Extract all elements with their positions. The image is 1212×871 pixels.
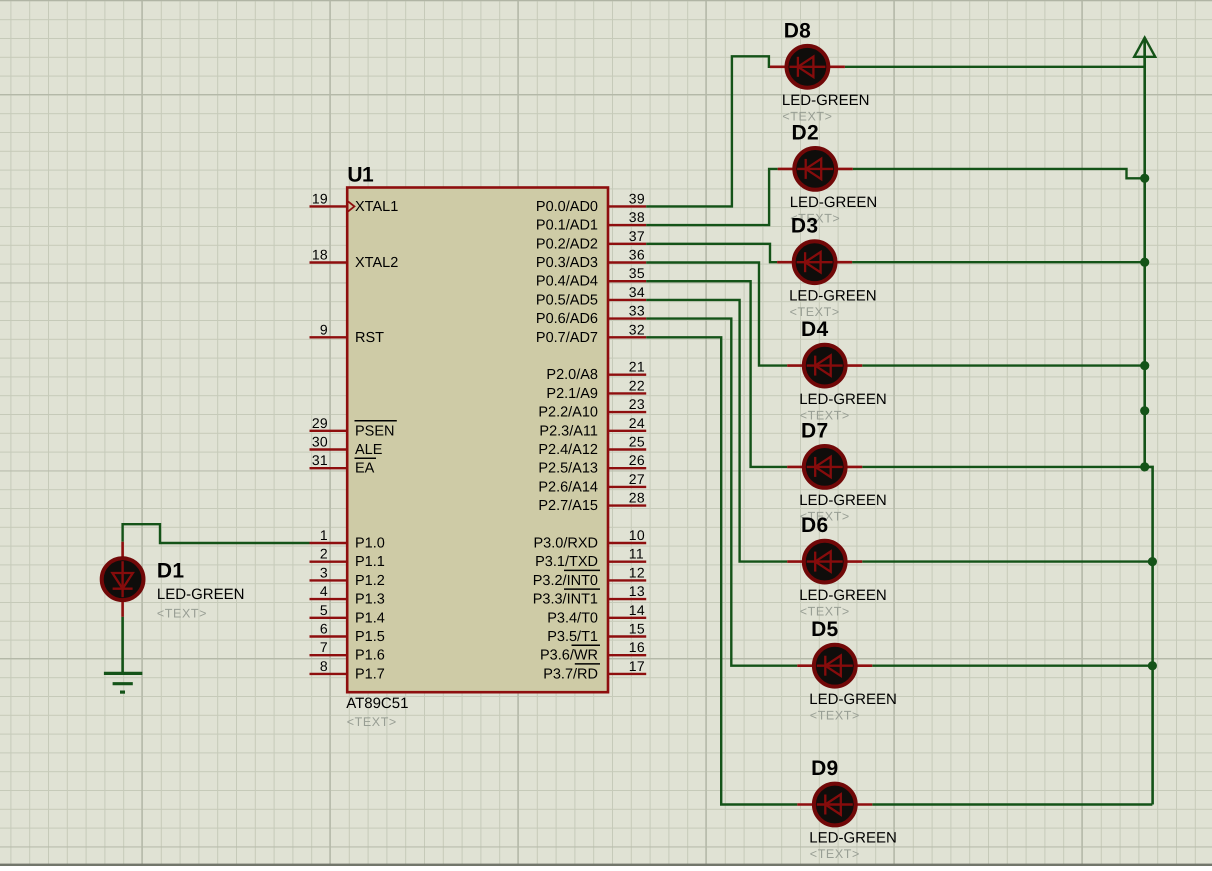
svg-text:P2.6/A14: P2.6/A14 [538,479,598,495]
svg-text:3: 3 [320,564,328,580]
junction dot 6 on power rail [1148,557,1157,566]
wire D9 anode to power rail [872,803,1152,805]
svg-text:D7: D7 [801,419,828,442]
svg-text:D4: D4 [801,318,828,341]
svg-text:LED-GREEN: LED-GREEN [157,586,245,603]
D1 value label LED-GREEN [157,586,245,603]
svg-text:LED-GREEN: LED-GREEN [782,92,870,109]
svg-text:P3.5/T1: P3.5/T1 [547,629,598,645]
svg-text:P0.0/AD0: P0.0/AD0 [536,199,598,215]
D7 value label LED-GREEN [799,492,887,509]
D6 property text placeholder [800,604,850,618]
D4 designator label [801,318,828,341]
wire D2 anode to power rail (with jog) [853,169,1145,178]
svg-text:XTAL1: XTAL1 [355,199,398,215]
svg-text:P2.3/A11: P2.3/A11 [539,423,598,439]
svg-text:29: 29 [312,415,328,431]
bottom window edge [0,864,1212,866]
LED D6 (LED-GREEN) [787,541,862,583]
U1 value label AT89C51 [346,695,408,712]
svg-text:P3.3/INT1: P3.3/INT1 [533,592,598,608]
svg-text:P0.2/AD2: P0.2/AD2 [536,236,598,252]
pin 29 (PSEN) left stub [310,415,397,440]
power symbol VCC up-arrow [1134,38,1155,67]
wire pin37 P0.2/AD2 to D3 cathode [646,244,777,262]
D5 value label LED-GREEN [809,691,897,708]
svg-text:25: 25 [629,434,645,450]
junction dot 1 on power rail [1140,174,1149,183]
svg-text:EA: EA [355,461,375,477]
svg-text:P1.6: P1.6 [355,648,385,664]
pin 16 (P3.6/WR) right stub [540,639,646,664]
pin 4 (P1.3) left stub [310,583,385,608]
wire D8 anode to power rail [845,66,1145,68]
pin 39 (P0.0/AD0) right stub [536,190,646,215]
wire vertical power rail bus [1145,40,1153,805]
svg-text:D5: D5 [811,618,838,641]
svg-text:19: 19 [312,190,328,206]
D4 value label LED-GREEN [799,391,887,408]
D8 property text placeholder [782,110,832,124]
svg-text:23: 23 [629,396,645,412]
junction dot 2 on power rail [1140,258,1149,267]
svg-text:7: 7 [320,639,328,655]
svg-text:33: 33 [629,303,645,319]
pin 8 (P1.7) left stub [310,658,385,683]
LED D2 (LED-GREEN) [778,148,853,190]
svg-text:<TEXT>: <TEXT> [810,708,860,722]
svg-text:D9: D9 [811,757,838,780]
pin 13 (P3.3/INT1) right stub [533,583,646,608]
svg-text:35: 35 [629,265,645,281]
pin 37 (P0.2/AD2) right stub [536,228,646,253]
pin 26 (P2.5/A13) right stub [538,452,646,477]
svg-text:P3.1/TXD: P3.1/TXD [535,554,598,570]
D1 property text placeholder [157,606,207,620]
svg-text:P2.5/A13: P2.5/A13 [538,461,598,477]
pin 27 (P2.6/A14) right stub [538,471,646,496]
svg-text:8: 8 [320,658,328,674]
svg-text:32: 32 [629,321,645,337]
LED D4 (LED-GREEN) [787,345,862,387]
svg-text:P2.7/A15: P2.7/A15 [538,498,598,514]
wire pin34 P0.5/AD5 to D6 cathode [646,300,787,562]
svg-text:LED-GREEN: LED-GREEN [809,691,897,708]
svg-text:LED-GREEN: LED-GREEN [799,587,887,604]
pin 3 (P1.2) left stub [310,564,385,589]
svg-text:21: 21 [629,359,645,375]
D3 value label LED-GREEN [789,287,877,304]
LED D8 (LED-GREEN) [770,46,845,88]
svg-text:D8: D8 [784,19,811,42]
pin 31 (EA) left stub [310,452,377,477]
pin 30 (ALE) left stub [310,434,383,459]
svg-text:24: 24 [629,415,645,431]
svg-text:P0.4/AD4: P0.4/AD4 [536,274,598,290]
D6 value label LED-GREEN [799,587,887,604]
svg-text:ALE: ALE [355,442,383,458]
svg-text:5: 5 [320,602,328,618]
wire D6 anode to power rail [862,560,1152,562]
pin 7 (P1.6) left stub [310,639,385,664]
D2 designator label [792,121,819,144]
LED D7 (LED-GREEN) [787,446,862,488]
svg-text:D6: D6 [801,514,828,537]
pin 23 (P2.2/A10) right stub [538,396,646,421]
pin 33 (P0.6/AD6) right stub [536,303,646,328]
svg-text:P0.1/AD1: P0.1/AD1 [536,218,598,234]
svg-text:D2: D2 [792,121,819,144]
pin 32 (P0.7/AD7) right stub [536,321,646,346]
LED D9 (LED-GREEN) [797,784,872,826]
D2 value label LED-GREEN [790,194,878,211]
wire D1 anode to U1 pin1 P1.0 [123,524,310,543]
wire pin35 P0.4/AD4 to D7 cathode [646,281,787,467]
svg-text:9: 9 [320,321,328,337]
svg-text:16: 16 [629,639,645,655]
svg-text:31: 31 [312,452,328,468]
svg-text:36: 36 [629,247,645,263]
svg-text:P1.2: P1.2 [355,573,385,589]
svg-text:P0.7/AD7: P0.7/AD7 [536,330,598,346]
svg-text:P3.4/T0: P3.4/T0 [547,610,598,626]
svg-text:LED-GREEN: LED-GREEN [809,830,897,847]
U1 property text placeholder [347,715,397,729]
pin 21 (P2.0/A8) right stub [546,359,646,384]
svg-text:P3.6/WR: P3.6/WR [540,648,598,664]
pin 17 (P3.7/RD) right stub [543,658,646,683]
svg-text:LED-GREEN: LED-GREEN [799,391,887,408]
svg-text:22: 22 [629,377,645,393]
svg-text:38: 38 [629,209,645,225]
D4 property text placeholder [800,408,850,422]
microcontroller U1 body (AT89C51) [347,188,608,693]
D7 property text placeholder [800,510,850,524]
pin 2 (P1.1) left stub [310,546,385,571]
pin 18 (XTAL2) left stub [310,247,399,272]
svg-text:4: 4 [320,583,328,599]
svg-text:P1.0: P1.0 [355,536,385,552]
D9 value label LED-GREEN [809,830,897,847]
svg-text:P0.6/AD6: P0.6/AD6 [536,311,598,327]
pin 11 (P3.1/TXD) right stub [535,546,646,571]
svg-text:P1.1: P1.1 [355,554,385,570]
svg-text:1: 1 [320,527,328,543]
svg-text:P1.7: P1.7 [355,666,385,682]
pin 38 (P0.1/AD1) right stub [536,209,646,234]
wire pin32 P0.7/AD7 to D9 cathode [646,337,797,804]
wire D5 anode to power rail [872,665,1152,667]
svg-text:27: 27 [629,471,645,487]
svg-text:12: 12 [629,564,645,580]
D9 designator label [811,757,838,780]
D3 property text placeholder [790,305,840,319]
svg-text:<TEXT>: <TEXT> [800,604,850,618]
D5 property text placeholder [810,708,860,722]
pin 5 (P1.4) left stub [310,602,385,627]
svg-text:P2.2/A10: P2.2/A10 [538,405,598,421]
pin 15 (P3.5/T1) right stub [547,621,646,646]
svg-text:AT89C51: AT89C51 [346,695,408,712]
svg-text:P0.3/AD3: P0.3/AD3 [536,255,598,271]
wire D4 anode to power rail [862,364,1144,366]
svg-text:<TEXT>: <TEXT> [810,847,860,861]
D2 property text placeholder [790,212,840,226]
D1 designator label [157,560,184,583]
D8 designator label [784,19,811,42]
U1 designator label [347,164,374,187]
svg-text:18: 18 [312,247,328,263]
svg-text:P3.2/INT0: P3.2/INT0 [533,573,598,589]
svg-text:LED-GREEN: LED-GREEN [790,194,878,211]
D7 designator label [801,419,828,442]
D3 designator label [791,215,818,238]
pin 36 (P0.3/AD3) right stub [536,247,646,272]
junction dot 5 on power rail [1140,462,1149,471]
ground symbol [104,673,142,692]
svg-text:P3.0/RXD: P3.0/RXD [534,536,598,552]
svg-text:P2.4/A12: P2.4/A12 [538,442,598,458]
svg-text:17: 17 [629,658,645,674]
wire D1 cathode to ground [121,617,124,673]
svg-text:2: 2 [320,546,328,562]
svg-text:26: 26 [629,452,645,468]
pin 10 (P3.0/RXD) right stub [534,527,647,552]
svg-text:37: 37 [629,228,645,244]
svg-text:P3.7/RD: P3.7/RD [543,666,598,682]
svg-text:13: 13 [629,583,645,599]
svg-text:11: 11 [629,546,644,562]
svg-text:P1.5: P1.5 [355,629,385,645]
svg-text:30: 30 [312,434,328,450]
svg-text:PSEN: PSEN [355,423,395,439]
pin 12 (P3.2/INT0) right stub [533,564,646,589]
junction dot 7 on power rail [1148,661,1157,670]
svg-text:P0.5/AD5: P0.5/AD5 [536,292,598,308]
wire D7 anode to power rail [862,466,1144,468]
svg-text:LED-GREEN: LED-GREEN [799,492,887,509]
svg-text:P2.0/A8: P2.0/A8 [546,367,598,383]
D6 designator label [801,514,828,537]
pin 34 (P0.5/AD5) right stub [536,284,646,309]
D9 property text placeholder [810,847,860,861]
LED D5 (LED-GREEN) [797,645,872,687]
junction dot 3 on power rail [1140,361,1149,370]
pin 6 (P1.5) left stub [310,621,385,646]
svg-text:U1: U1 [347,164,374,187]
wire pin36 P0.3/AD3 to D4 cathode [646,263,787,366]
D5 designator label [811,618,838,641]
svg-text:<TEXT>: <TEXT> [790,305,840,319]
svg-text:14: 14 [629,602,645,618]
wire D3 anode to power rail [852,261,1145,263]
D8 value label LED-GREEN [782,92,870,109]
svg-text:D3: D3 [791,215,818,238]
wire pin33 P0.6/AD6 to D5 cathode [646,319,797,666]
pin 24 (P2.3/A11) right stub [539,415,646,440]
pin 14 (P3.4/T0) right stub [547,602,646,627]
LED D1 (LED-GREEN) [102,542,144,617]
pin 22 (P2.1/A9) right stub [546,377,646,402]
svg-text:P1.3: P1.3 [355,592,385,608]
pin 35 (P0.4/AD4) right stub [536,265,646,290]
wire pin38 P0.1/AD1 to D2 cathode [646,169,778,225]
svg-text:28: 28 [629,490,645,506]
svg-text:RST: RST [355,330,384,346]
pin 1 (P1.0) left stub [310,527,385,552]
pin 28 (P2.7/A15) right stub [538,490,646,514]
LED D3 (LED-GREEN) [777,241,852,283]
junction dot 4 on power rail [1140,406,1149,415]
pin 9 (RST) left stub [310,321,385,346]
svg-text:39: 39 [629,190,645,206]
svg-text:6: 6 [320,621,328,637]
svg-text:P1.4: P1.4 [355,610,385,626]
svg-text:XTAL2: XTAL2 [355,255,398,271]
pin 19 (XTAL1) left stub [310,190,399,215]
svg-text:10: 10 [629,527,645,543]
svg-text:34: 34 [629,284,645,300]
svg-text:P2.1/A9: P2.1/A9 [546,386,598,402]
svg-text:<TEXT>: <TEXT> [347,715,397,729]
svg-text:15: 15 [629,621,645,637]
svg-text:<TEXT>: <TEXT> [157,606,207,620]
pin 25 (P2.4/A12) right stub [538,434,646,459]
wire pin39 P0.0/AD0 to D8 cathode [646,56,770,206]
svg-text:LED-GREEN: LED-GREEN [789,287,877,304]
clock input marker at pin XTAL1 [348,201,354,211]
svg-text:D1: D1 [157,560,184,583]
